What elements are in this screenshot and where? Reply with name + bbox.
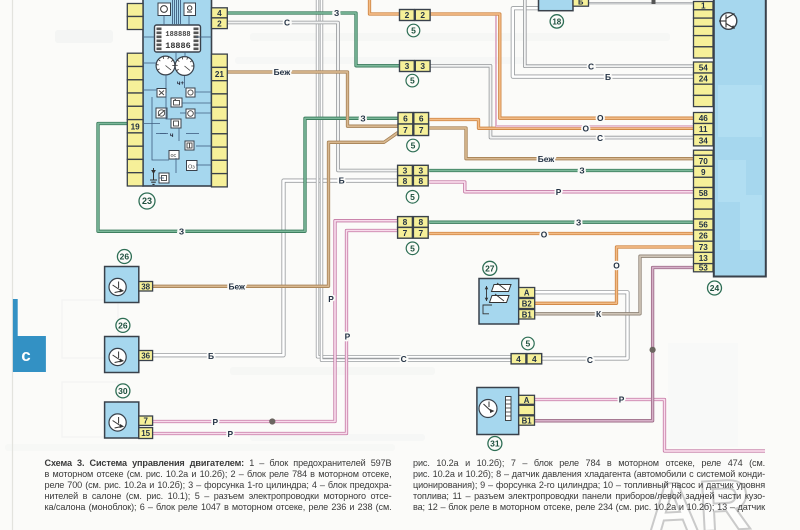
U23 left pin column, pin 19	[127, 4, 143, 187]
svg-text:188888: 188888	[165, 31, 190, 39]
caption right column	[413, 458, 765, 469]
svg-text:К: К	[596, 309, 602, 319]
connector 5 cells 2|2	[400, 10, 431, 21]
svg-text:27: 27	[485, 263, 495, 273]
wire white-C pair-a from top to connector 4|4	[318, 0, 515, 357]
U23 gauges	[156, 56, 175, 75]
svg-text:О: О	[597, 113, 604, 123]
svg-text:73: 73	[699, 243, 709, 252]
svg-text:ч: ч	[170, 133, 174, 139]
connector 5 cells 3|3	[400, 61, 431, 72]
svg-text:B2: B2	[522, 300, 533, 309]
svg-text:Р: Р	[213, 417, 219, 427]
wire pink-P from pump 30 pin 7 to connector row 8	[152, 221, 397, 422]
instrument cluster U23 body	[143, 0, 212, 186]
wire violet from injector 31 pin B1 to pin 53 of U24	[535, 268, 695, 421]
svg-text:2: 2	[405, 10, 410, 20]
wire brown-K from sensor 27 pin B1 to pin 13 of U24	[535, 256, 695, 314]
injector block 31	[477, 388, 519, 435]
svg-text:Р: Р	[328, 294, 334, 304]
connector ref 5	[522, 337, 535, 350]
svg-text:26: 26	[118, 320, 128, 330]
svg-text:9: 9	[701, 168, 706, 177]
svg-text:53: 53	[699, 264, 709, 273]
connector ref 5	[406, 191, 419, 204]
svg-text:Р: Р	[345, 332, 351, 342]
svg-text:24: 24	[699, 75, 709, 84]
svg-text:Б: Б	[339, 176, 345, 186]
svg-text:6: 6	[419, 113, 424, 123]
svg-text:36: 36	[141, 352, 150, 361]
svg-text:7: 7	[403, 125, 408, 135]
svg-text:О: О	[583, 123, 590, 133]
wire grey-C from connector 3|3 to pin 34 of U24	[429, 66, 694, 138]
page edge line	[12, 0, 14, 530]
svg-text:С: С	[597, 133, 603, 143]
svg-text:19: 19	[131, 122, 141, 131]
svg-text:13: 13	[699, 254, 709, 263]
svg-text:31: 31	[490, 439, 500, 449]
svg-text:Беж: Беж	[274, 67, 291, 77]
svg-text:2: 2	[217, 19, 222, 28]
U24 pin strip with pins 54 24 46 11 34 70 9 58 56 26 73 13 53	[694, 2, 714, 273]
connector ref 5	[407, 24, 420, 37]
wire beige from connector row 7 to pin 70 of U24	[430, 128, 695, 159]
svg-text:Р: Р	[619, 394, 625, 404]
wire pink-P from injector 31 pin A to right edge	[535, 400, 766, 452]
watermark	[645, 465, 753, 530]
svg-text:3: 3	[403, 166, 408, 176]
svg-text:21: 21	[215, 70, 225, 79]
svg-text:56: 56	[699, 221, 709, 230]
svg-text:A: A	[524, 289, 530, 298]
connector ref 5	[406, 74, 419, 87]
relay block 18	[539, 0, 574, 11]
U23 ribbon lines	[173, 0, 181, 24]
svg-text:54: 54	[699, 64, 709, 73]
svg-text:4: 4	[532, 354, 537, 364]
U23 top icons	[158, 3, 196, 16]
svg-text:3: 3	[420, 61, 425, 71]
svg-text:С: С	[587, 355, 593, 365]
wire grey-C from U23 pin 2 to connector 5 row 3	[227, 23, 397, 171]
connector 5 cells 3|3 lower	[398, 165, 429, 175]
circled ref 24	[708, 281, 722, 295]
engine ECU U24 body	[714, 0, 766, 277]
svg-text:8: 8	[418, 176, 423, 186]
svg-text:Беж: Беж	[228, 282, 245, 292]
svg-text:18: 18	[552, 17, 561, 26]
svg-text:3: 3	[418, 166, 423, 176]
svg-text:Беж: Беж	[538, 154, 555, 164]
connector 5 cells 8|8	[398, 176, 429, 186]
refrigerant pressure sensor 27	[479, 279, 519, 325]
U23 internal wiring web	[143, 16, 212, 179]
svg-text:З: З	[360, 113, 365, 123]
connector 5 cells 7|7	[398, 124, 429, 136]
svg-text:8: 8	[403, 217, 408, 227]
svg-text:24: 24	[710, 283, 720, 293]
circled ref 18	[550, 15, 563, 28]
U23 LCD display panel	[155, 25, 201, 52]
svg-text:З: З	[579, 166, 584, 176]
svg-text:4: 4	[516, 354, 521, 364]
svg-text:26: 26	[699, 232, 709, 241]
wire orange-O from sensor 27 pin B2 to pin 73 of U24	[535, 247, 695, 303]
wire pink-P from connector row 8 to pin 58 of U24	[429, 182, 694, 192]
wire beige from U23 pin 21 to connector row 7	[227, 72, 398, 126]
svg-text:6: 6	[403, 113, 408, 123]
svg-text:О: О	[541, 229, 548, 239]
svg-text:С: С	[401, 354, 407, 364]
fuel pump block 30 with pins 7 15	[105, 402, 139, 438]
transistor symbol inside U24	[719, 13, 737, 30]
circled ref 27	[483, 261, 497, 275]
svg-text:С: С	[284, 18, 290, 28]
wire orange-O through connector 2|2 to pin 46 of U24	[370, 0, 695, 118]
U23 telltale icons	[156, 88, 197, 183]
svg-text:З: З	[576, 218, 581, 228]
wire white-C pair-b from top to connector 4|4	[322, 0, 515, 360]
svg-text:С: С	[588, 61, 594, 71]
svg-text:8: 8	[418, 217, 423, 227]
circled ref 23	[139, 193, 155, 209]
svg-text:ч+: ч+	[177, 81, 184, 87]
svg-text:7: 7	[403, 228, 408, 238]
connector 5 cells 7|7 lower	[398, 227, 429, 238]
connector 5 cells 4|4	[511, 354, 542, 364]
wire from block 18 pin to top pin of U24	[589, 2, 694, 4]
wire green-Z from connector row 3 to pin 9 of U24	[429, 169, 694, 172]
svg-text:70: 70	[699, 157, 709, 166]
wire green-Z from U23 pin 4 to connector 3|3	[228, 13, 400, 66]
U23 right pin column, pins 4 2 21	[212, 8, 228, 187]
svg-text:4: 4	[217, 9, 222, 18]
junction dot on pink wire	[269, 418, 275, 424]
wire white-B from injector 26 pin 36 to connector 5 row 8	[153, 181, 398, 356]
svg-text:с: с	[21, 346, 30, 365]
junction dot on violet wire	[650, 347, 656, 353]
wire green-Z from U23 pin 19 to connector 6|6	[98, 118, 398, 231]
connector 5 cells 6|6	[398, 113, 429, 125]
svg-text:7: 7	[418, 228, 423, 238]
connector ref 5	[406, 242, 419, 255]
svg-text:A: A	[524, 396, 530, 405]
svg-text:58: 58	[699, 189, 709, 198]
svg-text:1: 1	[701, 2, 706, 11]
svg-text:38: 38	[141, 282, 150, 291]
wire orange-O from connector row 6 to pin 11 of U24	[430, 120, 695, 129]
svg-text:18886: 18886	[165, 41, 191, 51]
svg-text:30: 30	[118, 386, 128, 396]
wire grey-C from top to pin 54 of U24	[525, 0, 694, 66]
circled ref 31	[488, 437, 502, 451]
svg-text:Oз: Oз	[188, 165, 195, 171]
svg-text:23: 23	[142, 196, 152, 206]
svg-text:О: О	[613, 261, 620, 271]
svg-text:B1: B1	[522, 310, 533, 319]
chapter tab	[13, 299, 18, 336]
wire pink-P from pump 30 pin 15 to connector row 7	[152, 231, 397, 434]
svg-text:15: 15	[141, 429, 150, 438]
connector ref 5	[407, 139, 420, 152]
svg-text:26: 26	[120, 252, 130, 262]
caption left column	[45, 458, 392, 469]
injector block 26 (cyl 2) with pin 36	[105, 337, 139, 373]
svg-text:7: 7	[143, 417, 148, 426]
U23 ground symbol	[150, 168, 157, 184]
svg-text:Б: Б	[578, 0, 584, 7]
svg-text:Б: Б	[208, 351, 214, 361]
svg-text:2: 2	[420, 10, 425, 20]
svg-text:Р: Р	[556, 187, 562, 197]
wire white-B from block 18 to pin 24 of U24	[513, 8, 694, 76]
svg-text:11: 11	[699, 125, 708, 134]
svg-text:46: 46	[699, 114, 709, 123]
svg-text:B1: B1	[522, 417, 533, 426]
svg-text:Б: Б	[605, 72, 611, 82]
injector block 26 (cyl 1) with pin 38	[105, 267, 139, 303]
svg-text:34: 34	[699, 136, 709, 145]
svg-text:3: 3	[405, 61, 410, 71]
svg-text:Р: Р	[228, 429, 234, 439]
connector 5 cells 8|8 lower	[398, 217, 429, 228]
svg-text:З: З	[334, 8, 339, 18]
wire orange-O from connector row 7 to pin 26 of U24	[429, 232, 694, 235]
wire white-C from connector 4|4 to sensor 27 pin A	[535, 292, 628, 358]
svg-text:7: 7	[419, 125, 424, 135]
wire green-Z from connector row 8 to pin 56 of U24	[429, 221, 694, 224]
svg-text:8: 8	[403, 176, 408, 186]
svg-text:З: З	[179, 227, 184, 237]
wire thin pink alongside orange to pin 11	[496, 16, 694, 127]
wire beige from injector 26 pin 38 to connector row 7	[153, 133, 399, 287]
